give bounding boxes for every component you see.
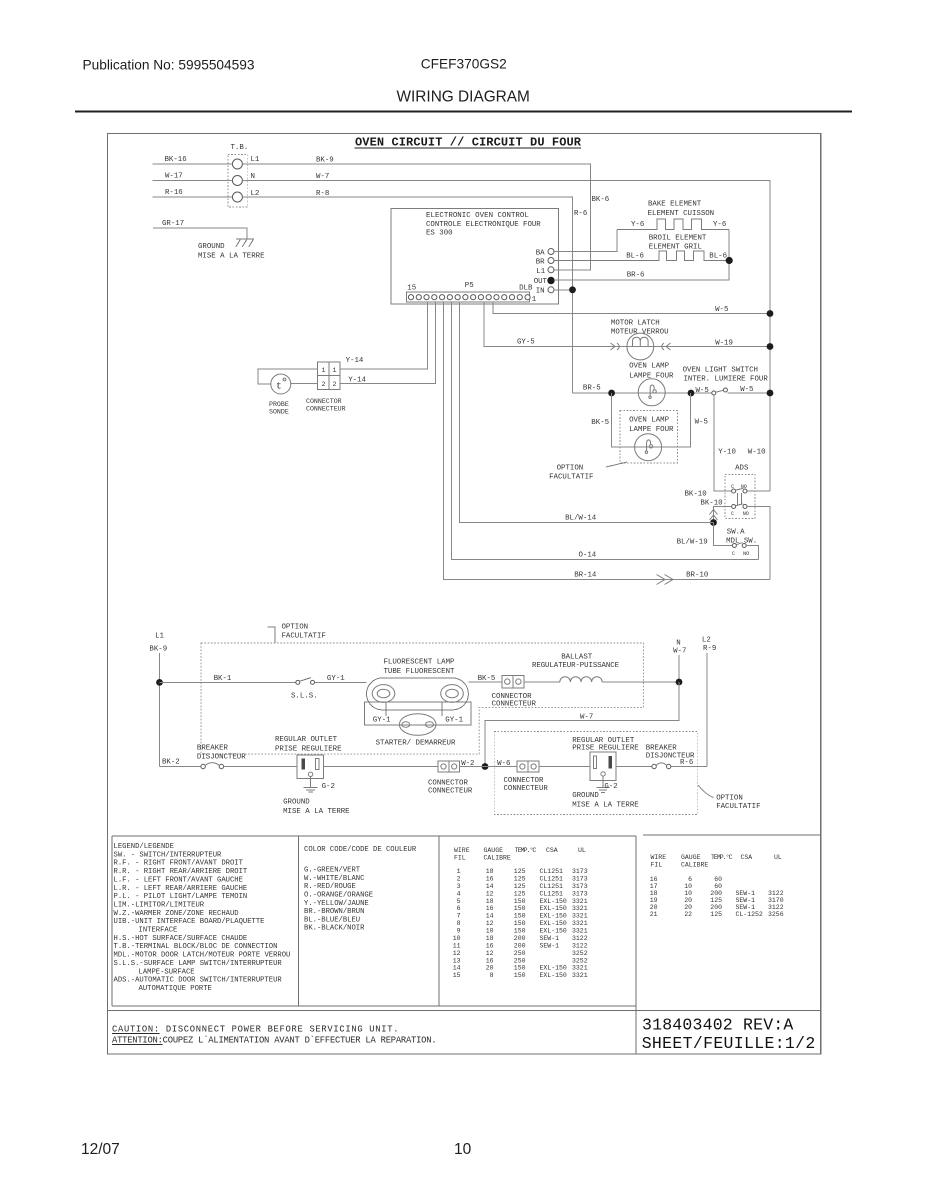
svg-text:3252: 3252 (572, 950, 588, 957)
header rule (75, 111, 852, 113)
svg-text:2: 2 (457, 875, 461, 882)
svg-text:BR-6: BR-6 (627, 272, 645, 280)
wire BL/W-19 junction to MDL switch (714, 523, 733, 546)
svg-text:3122: 3122 (768, 890, 784, 897)
svg-text:EXL-150: EXL-150 (540, 898, 567, 905)
wire IN stub to R-6 junction (554, 289, 573, 291)
svg-text:CONNECTOR: CONNECTOR (504, 777, 544, 785)
svg-text:3321: 3321 (572, 920, 588, 927)
inline connector symbols on motor wire (611, 343, 671, 350)
temperature probe (271, 374, 291, 394)
svg-text:20: 20 (684, 897, 692, 904)
svg-text:3321: 3321 (572, 898, 588, 905)
svg-text:3173: 3173 (572, 875, 588, 882)
junction BR-5 (608, 390, 615, 397)
wire outlet to right breaker (616, 766, 653, 768)
wire BK-1 lamp feed (160, 681, 297, 683)
svg-text:MISE A LA TERRE: MISE A LA TERRE (283, 808, 350, 816)
svg-text:SW.A: SW.A (727, 529, 745, 537)
ADS automatic door switch (725, 465, 755, 519)
svg-text:LEGEND/LEGENDE: LEGEND/LEGENDE (114, 843, 174, 851)
wire probe loop (258, 369, 317, 384)
svg-text:150: 150 (514, 898, 526, 905)
svg-text:W-19: W-19 (715, 340, 733, 348)
svg-text:200: 200 (514, 935, 526, 942)
svg-text:MOTOR LATCH: MOTOR LATCH (611, 320, 660, 328)
svg-text:BK-9: BK-9 (316, 157, 334, 165)
svg-text:BK-9: BK-9 (149, 646, 167, 654)
svg-text:GY-1: GY-1 (327, 675, 345, 683)
svg-text:G.-GREEN/VERT: G.-GREEN/VERT (304, 867, 361, 875)
svg-text:200: 200 (710, 904, 722, 911)
lamp 2 dashed option box (620, 411, 677, 463)
svg-text:EXL-150: EXL-150 (540, 928, 567, 935)
svg-text:LAMPE-SURFACE: LAMPE-SURFACE (139, 968, 195, 976)
svg-text:NO: NO (743, 551, 749, 557)
junction broil/bake right (726, 257, 733, 264)
svg-text:EXL-150: EXL-150 (540, 972, 567, 979)
svg-text:GAUGE: GAUGE (484, 847, 504, 854)
svg-text:200: 200 (514, 942, 526, 949)
svg-text:ELECTRONIC OVEN CONTROL: ELECTRONIC OVEN CONTROL (426, 212, 529, 220)
svg-text:OPTION: OPTION (716, 795, 743, 803)
svg-text:FIL: FIL (454, 855, 466, 862)
svg-text:SEW-1: SEW-1 (540, 935, 560, 942)
svg-text:3321: 3321 (572, 972, 588, 979)
svg-text:15: 15 (407, 284, 416, 292)
svg-text:2: 2 (333, 381, 337, 388)
wire W-7 return (485, 682, 679, 767)
wire BR-5 lamp feed (573, 392, 713, 394)
svg-text:CFEF370GS2: CFEF370GS2 (421, 57, 507, 72)
svg-text:BK-1: BK-1 (214, 675, 232, 683)
svg-text:W-5: W-5 (715, 306, 728, 314)
svg-text:CL1251: CL1251 (540, 890, 564, 897)
svg-text:L1: L1 (536, 268, 545, 276)
svg-text:FACULTATIF: FACULTATIF (282, 633, 326, 641)
svg-text:L.F. - LEFT FRONT/AVANT GAUCHE: L.F. - LEFT FRONT/AVANT GAUCHE (114, 876, 243, 884)
svg-text:INTERFACE: INTERFACE (139, 927, 178, 935)
wire to right outlet (539, 766, 590, 768)
svg-text:FACULTATIF: FACULTATIF (549, 474, 593, 482)
svg-text:DISJONCTEUR: DISJONCTEUR (197, 754, 246, 762)
svg-text:200: 200 (710, 890, 722, 897)
SW.A MDL door latch switch (726, 529, 757, 558)
svg-text:125: 125 (514, 890, 526, 897)
svg-text:S.L.S.: S.L.S. (291, 693, 318, 701)
svg-text:1: 1 (457, 868, 461, 875)
wire W-17 (N feed left) (153, 180, 233, 182)
svg-text:R.F. - RIGHT FRONT/AVANT DROIT: R.F. - RIGHT FRONT/AVANT DROIT (114, 860, 244, 868)
svg-text:T.B.-TERMINAL BLOCK/BLOC DE CO: T.B.-TERMINAL BLOCK/BLOC DE CONNECTION (114, 943, 278, 951)
svg-text:BR-5: BR-5 (583, 385, 601, 393)
svg-text:DLB: DLB (519, 284, 533, 292)
svg-text:14: 14 (486, 913, 494, 920)
svg-text:OVEN LAMP: OVEN LAMP (629, 363, 669, 371)
wire ballast to N (602, 681, 679, 683)
svg-text:BK-5: BK-5 (591, 419, 609, 427)
svg-text:21: 21 (650, 911, 658, 918)
svg-text:L2: L2 (702, 637, 711, 645)
svg-text:CONNECTOR: CONNECTOR (428, 780, 468, 788)
svg-text:150: 150 (514, 913, 526, 920)
svg-text:CL-1252: CL-1252 (736, 911, 763, 918)
svg-text:SONDE: SONDE (269, 409, 289, 416)
svg-text:GR-17: GR-17 (162, 220, 184, 228)
svg-text:BL-6: BL-6 (709, 253, 727, 261)
svg-text:150: 150 (514, 905, 526, 912)
svg-text:20: 20 (650, 904, 658, 911)
svg-text:125: 125 (710, 911, 722, 918)
svg-text:16: 16 (486, 875, 494, 882)
svg-text:CONNECTEUR: CONNECTEUR (428, 788, 473, 796)
svg-text:22: 22 (684, 911, 692, 918)
svg-text:BALLAST: BALLAST (561, 654, 593, 662)
svg-text:Y-6: Y-6 (631, 221, 644, 229)
svg-text:O-14: O-14 (579, 552, 597, 560)
svg-text:CONNECTEUR: CONNECTEUR (492, 701, 537, 709)
svg-text:BA: BA (536, 249, 545, 257)
svg-text:L1: L1 (251, 156, 260, 164)
svg-text:15: 15 (453, 972, 461, 979)
svg-text:CALIBRE: CALIBRE (681, 862, 708, 869)
svg-text:9: 9 (457, 928, 461, 935)
svg-text:W-6: W-6 (497, 760, 510, 768)
svg-text:PRISE REGULIERE: PRISE REGULIERE (572, 745, 639, 753)
svg-text:Y-10: Y-10 (718, 449, 736, 457)
svg-text:12: 12 (486, 890, 494, 897)
regular outlet (right) (590, 752, 616, 780)
svg-text:17: 17 (650, 883, 658, 890)
svg-text:BR.-BROWN/BRUN: BR.-BROWN/BRUN (304, 908, 364, 916)
svg-text:Y-14: Y-14 (348, 377, 366, 385)
right outlet option dashed box (494, 732, 698, 815)
svg-text:10: 10 (453, 935, 461, 942)
svg-text:MDL SW.: MDL SW. (726, 538, 757, 546)
probe connector 2x2 (318, 362, 341, 389)
svg-text:125: 125 (710, 897, 722, 904)
svg-text:BK-6: BK-6 (592, 196, 610, 204)
svg-text:ADS.-AUTOMATIC DOOR SWITCH/INT: ADS.-AUTOMATIC DOOR SWITCH/INTERRUPTEUR (114, 977, 283, 985)
bake element heater (617, 219, 729, 229)
svg-text:R-8: R-8 (316, 190, 329, 198)
svg-text:8: 8 (490, 972, 494, 979)
svg-text:SEW-1: SEW-1 (540, 942, 560, 949)
starter housing (364, 702, 471, 725)
wire R-16 (L2 feed left) (153, 196, 233, 198)
svg-text:C: C (731, 511, 734, 517)
wire W-5 from P5 to W bus (493, 302, 770, 313)
svg-text:R-16: R-16 (165, 189, 183, 197)
breaker (right) (652, 763, 671, 769)
svg-text:W-7: W-7 (580, 714, 593, 722)
svg-text:WIRING DIAGRAM: WIRING DIAGRAM (397, 89, 530, 106)
svg-text:12: 12 (453, 950, 461, 957)
svg-text:3122: 3122 (572, 935, 588, 942)
svg-text:H.S.-HOT SURFACE/SURFACE CHAUD: H.S.-HOT SURFACE/SURFACE CHAUDE (114, 935, 248, 943)
svg-text:BR: BR (536, 259, 545, 267)
oven lamp 1 (638, 379, 665, 406)
svg-text:CONTROLE ELECTRONIQUE FOUR: CONTROLE ELECTRONIQUE FOUR (426, 221, 541, 229)
svg-text:BR-10: BR-10 (686, 572, 708, 580)
wire outlet to connector W-2 (323, 766, 438, 768)
svg-text:S.L.S.-SURFACE LAMP SWITCH/INT: S.L.S.-SURFACE LAMP SWITCH/INTERRUPTEUR (114, 960, 283, 968)
chevron connector marks on BR wire (657, 575, 674, 585)
svg-text:3252: 3252 (572, 957, 588, 964)
svg-text:3173: 3173 (572, 868, 588, 875)
svg-text:MDL.-MOTOR DOOR LATCH/MOTEUR P: MDL.-MOTOR DOOR LATCH/MOTEUR PORTE VERRO… (114, 952, 291, 960)
svg-text:O.-ORANGE/ORANGE: O.-ORANGE/ORANGE (304, 892, 373, 900)
svg-text:150: 150 (514, 965, 526, 972)
svg-text:IN: IN (536, 288, 545, 296)
svg-text:G-2: G-2 (322, 783, 335, 791)
svg-text:3122: 3122 (768, 904, 784, 911)
svg-text:G-2: G-2 (604, 783, 617, 791)
svg-text:R-9: R-9 (703, 645, 716, 653)
svg-text:UL: UL (578, 847, 586, 854)
svg-text:6: 6 (688, 876, 692, 883)
option facultatif dashed enclosure (fluorescent) (201, 643, 643, 754)
svg-text:3321: 3321 (572, 905, 588, 912)
wire Y-14 pin to probe connector row2 (340, 302, 435, 383)
svg-text:150: 150 (514, 920, 526, 927)
svg-text:10: 10 (486, 928, 494, 935)
wire probe to connector row2 (291, 383, 318, 385)
svg-text:REGULATEUR-PUISSANCE: REGULATEUR-PUISSANCE (532, 662, 620, 670)
right outlet ground symbol (597, 776, 610, 792)
junction IN / R-6 (569, 286, 576, 293)
svg-text:GY-1: GY-1 (373, 717, 391, 725)
svg-text:GAUGE: GAUGE (681, 854, 701, 861)
fluorescent lamp tube (367, 678, 469, 710)
svg-text:19: 19 (650, 897, 658, 904)
svg-text:14: 14 (486, 883, 494, 890)
svg-text:REGULAR OUTLET: REGULAR OUTLET (275, 736, 338, 744)
svg-text:16: 16 (486, 942, 494, 949)
svg-text:CONNECTEUR: CONNECTEUR (504, 785, 549, 793)
terminal block T.B. (228, 144, 248, 207)
svg-text:Y.-YELLOW/JAUNE: Y.-YELLOW/JAUNE (304, 900, 369, 908)
svg-text:STARTER/ DEMARREUR: STARTER/ DEMARREUR (376, 740, 456, 748)
svg-text:150: 150 (514, 928, 526, 935)
wire W-2 to junction (460, 766, 517, 768)
svg-text:OVEN LAMP: OVEN LAMP (629, 417, 669, 425)
electronic oven control ES 300 box (391, 208, 559, 303)
wire GY-1 switch to lamp (315, 681, 367, 683)
junction lamp1 right / W-5 (688, 390, 695, 397)
svg-text:LIM.-LIMITOR/LIMITEUR: LIM.-LIMITOR/LIMITEUR (114, 902, 205, 910)
wire BR to broil element (554, 251, 729, 261)
svg-text:14: 14 (453, 965, 461, 972)
svg-text:3173: 3173 (572, 890, 588, 897)
svg-text:R-6: R-6 (574, 210, 587, 218)
svg-text:SEW-1: SEW-1 (736, 897, 756, 904)
svg-text:UL: UL (774, 854, 782, 861)
svg-text:Y-6: Y-6 (713, 221, 726, 229)
wire BK-5 to oven lamp 2 (612, 393, 691, 447)
svg-text:UIB.-UNIT INTERFACE BOARD/PLAQ: UIB.-UNIT INTERFACE BOARD/PLAQUETTE (114, 918, 265, 926)
wire MDL right to O-14 (746, 546, 758, 560)
svg-text:SW. - SWITCH/INTERRUPTEUR: SW. - SWITCH/INTERRUPTEUR (114, 851, 223, 859)
svg-text:10: 10 (684, 890, 692, 897)
svg-text:MISE A LA TERRE: MISE A LA TERRE (572, 802, 639, 810)
svg-text:TUBE FLUORESCENT: TUBE FLUORESCENT (384, 668, 456, 676)
svg-text:TEMP.°C: TEMP.°C (515, 846, 537, 854)
svg-text:16: 16 (486, 905, 494, 912)
svg-text:12: 12 (486, 920, 494, 927)
svg-text:1: 1 (532, 296, 537, 304)
svg-text:BK.-BLACK/NOIR: BK.-BLACK/NOIR (304, 925, 365, 933)
junction W-7 / outlet wire (482, 763, 489, 770)
wire Y-10 light switch to ADS (714, 395, 732, 491)
svg-text:CSA: CSA (546, 847, 558, 854)
svg-text:ELEMENT GRIL: ELEMENT GRIL (649, 244, 702, 252)
svg-text:EXL-150: EXL-150 (540, 965, 567, 972)
svg-text:WIRE: WIRE (454, 847, 470, 854)
svg-text:250: 250 (514, 957, 526, 964)
svg-text:3: 3 (457, 883, 461, 890)
terminal labels L1 N L2 (251, 156, 260, 198)
svg-text:BAKE ELEMENT: BAKE ELEMENT (648, 201, 702, 209)
svg-text:125: 125 (514, 883, 526, 890)
svg-text:R.R. - RIGHT REAR/ARRIERE DROI: R.R. - RIGHT REAR/ARRIERE DROIT (114, 868, 248, 876)
svg-text:3173: 3173 (572, 883, 588, 890)
svg-text:1: 1 (322, 367, 326, 374)
caution box line (107, 1009, 820, 1011)
svg-text:OPTION: OPTION (282, 624, 309, 632)
svg-text:t: t (276, 381, 282, 392)
svg-text:N: N (251, 173, 255, 181)
svg-text:60: 60 (714, 876, 722, 883)
svg-text:16: 16 (486, 957, 494, 964)
svg-text:12/07: 12/07 (81, 1141, 120, 1158)
svg-text:125: 125 (514, 868, 526, 875)
oven lamp 2 (optional) (635, 434, 662, 461)
svg-text:W-17: W-17 (165, 173, 183, 181)
svg-text:3170: 3170 (768, 897, 784, 904)
svg-text:BK-5: BK-5 (478, 675, 496, 683)
svg-text:CONNECTOR: CONNECTOR (306, 398, 342, 405)
svg-text:SHEET/FEUILLE:1/2: SHEET/FEUILLE:1/2 (642, 1034, 816, 1053)
svg-text:FLUORESCENT LAMP: FLUORESCENT LAMP (384, 659, 456, 667)
svg-text:P.L. - PILOT LIGHT/LAMPE TEMOI: P.L. - PILOT LIGHT/LAMPE TEMOIN (114, 893, 248, 901)
svg-text:8: 8 (457, 920, 461, 927)
junction W bus / W-19 (767, 343, 774, 350)
svg-text:BK-16: BK-16 (165, 156, 187, 164)
svg-text:5: 5 (457, 898, 461, 905)
svg-text:W.Z.-WARMER ZONE/ZONE RECHAUD: W.Z.-WARMER ZONE/ZONE RECHAUD (114, 910, 239, 918)
svg-text:150: 150 (514, 972, 526, 979)
svg-text:OUT: OUT (534, 278, 548, 286)
wire BK-9 (L1 to control) (242, 164, 590, 270)
wire BL/W-14 long drop (460, 302, 714, 522)
connector W-6 (517, 761, 539, 772)
svg-text:COLOR CODE/CODE DE COULEUR: COLOR CODE/CODE DE COULEUR (304, 846, 417, 854)
svg-text:3321: 3321 (572, 965, 588, 972)
wire table 1 (453, 846, 588, 979)
legend table frame (112, 835, 636, 837)
oven light switch (712, 388, 770, 395)
wire GY-5 from P5 to motor latch (484, 302, 770, 346)
wire Y-14 pin to probe connector row1 (340, 302, 427, 369)
diagram outer border (107, 133, 820, 1054)
svg-text:W-5: W-5 (740, 386, 753, 394)
svg-text:CSA: CSA (741, 854, 753, 861)
svg-text:12: 12 (486, 950, 494, 957)
wire table 2 top line (643, 834, 821, 836)
wire R-6 breaker to L2 (671, 766, 707, 768)
svg-text:BL-6: BL-6 (626, 253, 644, 261)
svg-text:WIRE: WIRE (651, 854, 667, 861)
svg-text:16: 16 (650, 876, 658, 883)
wire element return BR-6 to OUT (554, 229, 729, 280)
svg-text:20: 20 (684, 904, 692, 911)
svg-text:INTER. LUMIERE FOUR: INTER. LUMIERE FOUR (684, 376, 769, 384)
starter / demarreur (386, 702, 442, 735)
svg-text:CAUTION: DISCONNECT POWER BEFO: CAUTION: DISCONNECT POWER BEFORE SERVICI… (112, 1025, 399, 1035)
svg-text:BL/W-14: BL/W-14 (565, 515, 597, 523)
junction L1 / lamp feed (156, 679, 163, 686)
svg-text:W-7: W-7 (673, 648, 686, 656)
connector (ballast) (502, 675, 524, 688)
svg-text:7: 7 (457, 913, 461, 920)
connector P5 strip (407, 282, 537, 304)
svg-text:GROUND: GROUND (572, 792, 599, 800)
svg-text:BL/W-19: BL/W-19 (677, 539, 708, 547)
svg-text:3256: 3256 (768, 911, 784, 918)
svg-text:L.R. - LEFT REAR/ARRIERE GAUCH: L.R. - LEFT REAR/ARRIERE GAUCHE (114, 885, 248, 893)
svg-text:2: 2 (322, 381, 326, 388)
outlet ground symbol (304, 777, 318, 793)
wire R-8 / R-6 (L2 to control IN) (242, 197, 572, 393)
wire BK-2 outlet feed (160, 766, 202, 768)
svg-text:GY-1: GY-1 (445, 717, 463, 725)
svg-text:18: 18 (486, 898, 494, 905)
svg-text:318403402 REV:A: 318403402 REV:A (642, 1016, 793, 1035)
svg-text:W-5: W-5 (696, 387, 709, 395)
svg-text:PRISE REGULIERE: PRISE REGULIERE (275, 746, 342, 754)
svg-text:FACULTATIF: FACULTATIF (716, 803, 760, 811)
svg-text:18: 18 (650, 890, 658, 897)
wire BK-5 lamp to connector (468, 681, 501, 683)
svg-text:MISE A LA TERRE: MISE A LA TERRE (198, 253, 265, 261)
ballast coil (560, 677, 602, 682)
svg-text:10: 10 (684, 883, 692, 890)
svg-text:GY-5: GY-5 (517, 339, 535, 347)
svg-text:250: 250 (514, 950, 526, 957)
svg-text:LAMPE FOUR: LAMPE FOUR (629, 373, 674, 381)
svg-text:W.-WHITE/BLANC: W.-WHITE/BLANC (304, 875, 365, 883)
option callout flag (268, 627, 276, 643)
svg-text:L1: L1 (155, 633, 164, 641)
svg-text:SEW-1: SEW-1 (736, 904, 756, 911)
breaker (left) (201, 763, 224, 769)
svg-text:60: 60 (714, 883, 722, 890)
svg-text:Y-14: Y-14 (346, 357, 364, 365)
wire ADS row2 right to BR-10 (747, 507, 770, 580)
svg-text:W-10: W-10 (748, 449, 766, 457)
svg-text:MOTEUR VERROU: MOTEUR VERROU (611, 329, 669, 337)
junction N / ballast (676, 679, 683, 686)
svg-text:OPTION: OPTION (557, 465, 584, 473)
svg-text:ELEMENT CUISSON: ELEMENT CUISSON (648, 210, 715, 218)
svg-text:3321: 3321 (572, 928, 588, 935)
svg-text:11: 11 (453, 942, 461, 949)
svg-text:SEW-1: SEW-1 (736, 890, 756, 897)
svg-text:3321: 3321 (572, 913, 588, 920)
regular outlet (left) (297, 755, 323, 779)
junction W bus / W-5 (767, 310, 774, 317)
